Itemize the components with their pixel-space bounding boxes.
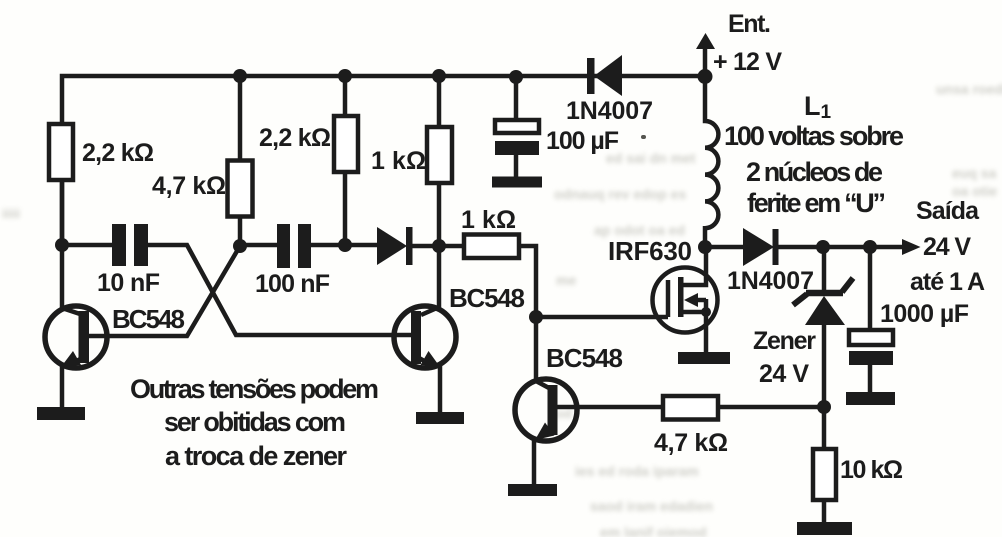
ground bar 100uF <box>492 177 542 188</box>
node dot C <box>338 238 352 252</box>
svg-text:1 kΩ: 1 kΩ <box>461 206 516 234</box>
node dot zener-output <box>816 240 830 254</box>
capacitor C1 10nF plates <box>112 224 126 266</box>
ground bar Q1 <box>37 407 85 420</box>
transistor Q1 BC548 <box>45 306 107 368</box>
svg-text:10 nF: 10 nF <box>97 269 160 297</box>
wire R4 branch / Q2 collector <box>421 76 439 315</box>
zener cathode bar <box>793 278 853 305</box>
svg-text:10 kΩ: 10 kΩ <box>840 456 903 484</box>
svg-text:24 V: 24 V <box>923 233 971 261</box>
mosfet U1 IRF630 <box>653 248 718 353</box>
svg-text:BC548: BC548 <box>449 283 525 313</box>
node dot bus-R4 <box>432 69 446 83</box>
diode D2 1N4007 input <box>594 55 622 96</box>
resistor R3 2.2k <box>334 116 358 172</box>
wire 100uF branch <box>514 76 519 121</box>
svg-text:100 voltas sobre: 100 voltas sobre <box>724 121 904 151</box>
svg-text:BC548: BC548 <box>112 304 185 334</box>
node dot drain-output <box>698 240 712 254</box>
svg-text:1 kΩ: 1 kΩ <box>371 147 426 175</box>
inductor L1 winding <box>705 76 718 248</box>
show-through ghost mid row2 <box>554 186 686 202</box>
ground bar mosfet <box>678 352 730 364</box>
svg-text:4,7 kΩ: 4,7 kΩ <box>152 172 226 200</box>
svg-text:1N4007: 1N4007 <box>727 267 814 295</box>
svg-text:2,2 kΩ: 2,2 kΩ <box>82 139 154 167</box>
svg-text:100 nF: 100 nF <box>255 270 330 298</box>
ground bar Q2 <box>416 412 464 424</box>
wire node D to 10k <box>822 407 827 449</box>
capacitor C4 1000uF top plate outlined <box>849 330 893 345</box>
wire gate node to mosfet gate <box>536 315 668 320</box>
wire R3 branch <box>343 76 348 247</box>
show-through ghost mid row3 <box>594 222 685 238</box>
wire output row right <box>776 245 906 250</box>
wire 1000uF to ground <box>868 364 873 394</box>
ground bar 10k <box>797 522 852 535</box>
svg-text:BC548: BC548 <box>546 343 623 373</box>
node dot zener-4.7k-10k <box>817 400 831 414</box>
resistor R7 10k <box>813 449 836 500</box>
wire Q1 emitter to ground <box>62 358 82 410</box>
wire 100uF to ground <box>514 154 519 179</box>
svg-text:1000 µF: 1000 µF <box>880 300 969 328</box>
wire left rail lower segment <box>60 180 65 247</box>
show-through ghost mid row1 <box>606 150 695 166</box>
capacitor C3 100uF bottom plate <box>495 141 539 155</box>
show-through ghost left of zener <box>556 272 586 288</box>
arrow Saida output <box>902 239 921 255</box>
show-through ghost q3 left <box>556 406 572 421</box>
node dot 1000uF-output <box>863 240 877 254</box>
transistor Q3 BC548 <box>515 379 577 441</box>
svg-text:até 1 A: até 1 A <box>910 268 985 296</box>
diode D1 <box>377 227 407 265</box>
wire node A to 10nF <box>60 243 113 248</box>
wire 10k to ground <box>822 499 827 526</box>
wire 4.7k to zener node <box>716 405 826 410</box>
ground bar 1000uF <box>846 392 895 405</box>
wire Q1 base diagonal to node B <box>88 246 240 336</box>
diode D3 1N4007 output <box>743 228 774 266</box>
node dot B base cross <box>233 239 247 253</box>
svg-text:Saída: Saída <box>916 197 980 225</box>
zener diode DZ 24V triangle <box>805 296 845 325</box>
wire 10nF to Q2 base diagonal <box>147 245 413 335</box>
svg-text:100 µF: 100 µF <box>546 127 619 155</box>
wire node B to 100nF <box>240 243 278 248</box>
wire R2 branch <box>238 76 243 247</box>
wire D1 to gate resistor <box>412 244 464 249</box>
node dot D1-R5 <box>432 239 446 253</box>
node dot A collector Q1 <box>55 238 69 252</box>
wire gate node down to Q3 collector <box>536 317 549 388</box>
resistor R1 2.2k <box>49 124 73 180</box>
svg-text:Ent.: Ent. <box>728 10 771 38</box>
transistor Q2 BC548 <box>394 306 456 368</box>
wire 100nF to node C <box>310 243 378 248</box>
wire zener branch upper <box>822 247 827 292</box>
wire output row left <box>705 245 745 250</box>
resistor R6 4.7k <box>663 396 718 420</box>
svg-text:Zener: Zener <box>753 327 816 355</box>
svg-text:2 núcleos de: 2 núcleos de <box>746 157 883 187</box>
wire top bus <box>62 76 705 245</box>
svg-text:L1: L1 <box>804 91 832 123</box>
wire gate resistor to gate node <box>517 246 536 317</box>
show-through faint band left edge <box>2 206 20 221</box>
resistor R5 1k gate <box>464 235 519 259</box>
svg-text:4,7 kΩ: 4,7 kΩ <box>654 429 728 457</box>
capacitor C3 100uF top plate outlined <box>495 120 539 133</box>
svg-text:ferite em “U”: ferite em “U” <box>747 188 886 218</box>
resistor R2 4.7k <box>228 161 253 217</box>
resistor R4 1k <box>427 127 452 183</box>
ground bar Q3 <box>508 484 557 496</box>
ink speck near 100uF label <box>641 135 646 139</box>
wire Q1 collector <box>62 245 80 314</box>
wire Q3 base to 4.7k <box>556 405 663 410</box>
svg-text:Outras tensões podem: Outras tensões podem <box>130 374 379 404</box>
show-through ghost right edge row1 <box>952 165 996 181</box>
capacitor C2 100nF plates <box>277 224 290 268</box>
node dot bus-R2 <box>233 69 247 83</box>
svg-text:1N4007: 1N4007 <box>566 97 653 125</box>
arrow Ent input <box>696 33 715 49</box>
wire Q3 emitter to ground <box>534 429 551 487</box>
svg-text:+ 12 V: + 12 V <box>713 48 782 76</box>
show-through ghost text top right <box>936 81 1002 97</box>
wire Q2 emitter to ground <box>419 358 440 415</box>
wire zener to node D <box>822 320 827 409</box>
node dot bus-R3 <box>338 69 352 83</box>
node dot bus-L1 <box>698 69 713 84</box>
show-through ghost bottom row3 <box>600 524 707 537</box>
show-through ghost bottom row1 <box>575 463 699 479</box>
wire 1000uF branch <box>868 247 873 332</box>
svg-text:a troca de zener: a troca de zener <box>165 441 347 471</box>
svg-text:2,2 kΩ: 2,2 kΩ <box>259 124 331 152</box>
wire Ent arrow shaft <box>703 44 708 76</box>
svg-text:IRF630: IRF630 <box>608 236 692 266</box>
show-through ghost right edge row2 <box>952 183 997 199</box>
node dot gate <box>529 310 543 324</box>
svg-text:24 V: 24 V <box>759 360 809 388</box>
node dot bus-100uF <box>509 70 523 84</box>
svg-text:ser obitidas com: ser obitidas com <box>164 407 346 437</box>
capacitor C4 1000uF bottom plate <box>849 351 893 365</box>
show-through ghost bottom row2 <box>590 498 713 514</box>
